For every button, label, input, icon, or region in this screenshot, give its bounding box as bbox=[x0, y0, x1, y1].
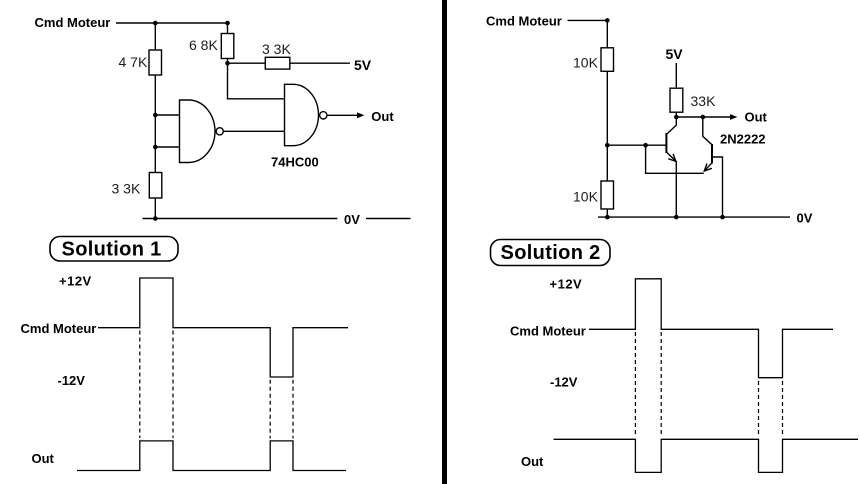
junction: top rail / R3 bbox=[225, 21, 230, 26]
transistor Q1 emitter arrow bbox=[668, 154, 676, 162]
wire: R1 to R2 vertical bbox=[154, 75, 156, 173]
wire: out rail bbox=[676, 116, 730, 118]
svg-text:-12V: -12V bbox=[550, 375, 578, 390]
svg-text:0V: 0V bbox=[344, 212, 360, 227]
svg-text:4 7K: 4 7K bbox=[119, 54, 148, 70]
wire: from Cmd Moteur to node bbox=[568, 19, 608, 21]
transistor Q1 emitter bbox=[666, 152, 676, 217]
svg-text:+12V: +12V bbox=[59, 274, 92, 289]
junction: R7 / Q1 collector / out bbox=[674, 115, 679, 120]
wire: 0V rail after label bbox=[366, 218, 411, 220]
wire: U1A input 2 bbox=[155, 146, 179, 148]
svg-text:Cmd Moteur: Cmd Moteur bbox=[510, 324, 586, 339]
junction: gate input B bbox=[153, 145, 158, 150]
wire: R5 down to base node bbox=[606, 71, 608, 145]
waveform Cmd Moteur (solution 1) bbox=[98, 278, 348, 377]
svg-text:Solution 2: Solution 2 bbox=[501, 242, 601, 264]
wire: 0V rail (left) bbox=[143, 218, 338, 220]
svg-text:3 3K: 3 3K bbox=[262, 41, 291, 57]
resistor R7 bbox=[670, 88, 683, 112]
dashed guide line 4 (right) bbox=[782, 381, 784, 436]
junction: R2 / 0V rail bbox=[153, 216, 158, 221]
wire: 5V down to R7 bbox=[675, 63, 677, 88]
junction: Q2 base lead / 0V bbox=[720, 215, 725, 220]
wire: U1A output to U1B input bbox=[223, 130, 284, 132]
junction: gate input A bbox=[153, 113, 158, 118]
wire: R3 to node bbox=[227, 59, 229, 64]
junction: input node bbox=[605, 18, 610, 23]
junction: R6 / 0V bbox=[605, 215, 610, 220]
svg-text:33K: 33K bbox=[691, 93, 717, 109]
solution 1 label box bbox=[50, 237, 178, 262]
wire: Q2 base lead to 0V bbox=[712, 157, 723, 217]
junction: top rail / R1 bbox=[153, 21, 158, 26]
wire: U1B output bbox=[327, 114, 358, 116]
dashed guide line 4 (left) bbox=[292, 380, 294, 439]
svg-text:Out: Out bbox=[745, 110, 768, 125]
svg-text:0V: 0V bbox=[797, 211, 813, 226]
resistor R6 bbox=[601, 181, 614, 209]
svg-text:2N2222: 2N2222 bbox=[720, 132, 766, 147]
wire: top rail from Cmd Moteur bbox=[116, 22, 228, 24]
dashed guide line 2 (left) bbox=[172, 331, 174, 439]
svg-text:74HC00: 74HC00 bbox=[271, 155, 319, 170]
svg-text:Solution 1: Solution 1 bbox=[62, 239, 162, 261]
svg-text:6 8K: 6 8K bbox=[189, 37, 218, 53]
junction: R3 / R4 / feedback node bbox=[225, 61, 230, 66]
transistor Q1 collector bbox=[666, 117, 676, 135]
wire: U1A input 1 bbox=[155, 114, 179, 116]
wire: node down to R5 bbox=[606, 20, 608, 47]
svg-text:3 3K: 3 3K bbox=[112, 181, 141, 197]
wire: 0V rail (right) bbox=[598, 216, 790, 218]
dashed guide line 3 (left) bbox=[269, 380, 271, 439]
wire: R2 to 0V bbox=[154, 198, 156, 219]
wire: feedback from base node down bbox=[646, 145, 704, 173]
transistor Q2 emitter arrow bbox=[704, 164, 712, 172]
junction: divider / base node bbox=[605, 143, 610, 148]
wire: base line to Q1 bbox=[607, 144, 666, 146]
waveform Out (solution 1) bbox=[77, 441, 346, 471]
wire: feedback node down and right to U1B input bbox=[228, 63, 285, 99]
svg-text:5V: 5V bbox=[666, 46, 684, 62]
resistor R4 bbox=[265, 57, 290, 69]
wire: R7 to out node bbox=[675, 112, 677, 117]
resistor R2 bbox=[149, 173, 162, 199]
svg-text:Out: Out bbox=[521, 454, 544, 469]
inverter bubble U1A bbox=[216, 128, 223, 135]
wire: R4 to 5V bbox=[290, 62, 350, 64]
solution 2 label box bbox=[491, 240, 611, 266]
svg-text:Out: Out bbox=[32, 451, 55, 466]
svg-text:10K: 10K bbox=[573, 55, 599, 71]
svg-text:Out: Out bbox=[371, 109, 394, 124]
transistor Q2 emitter bbox=[704, 163, 712, 171]
arrowhead out (right) bbox=[730, 114, 738, 120]
wire: node to R4 bbox=[228, 62, 266, 64]
dashed guide line 1 (right) bbox=[634, 332, 636, 436]
resistor R1 bbox=[149, 50, 162, 75]
resistor R3 bbox=[221, 34, 234, 59]
svg-text:10K: 10K bbox=[573, 189, 599, 205]
dashed guide line 1 (left) bbox=[139, 331, 141, 439]
divider bar bbox=[442, 0, 447, 484]
transistor Q2 base bar bbox=[711, 144, 713, 164]
dashed guide line 2 (right) bbox=[660, 332, 662, 436]
junction: base line / feedback bbox=[643, 143, 648, 148]
junction: Q1 emitter / 0V bbox=[674, 215, 679, 220]
junction: Q2 collector / out bbox=[701, 115, 706, 120]
svg-text:Cmd Moteur: Cmd Moteur bbox=[21, 321, 97, 336]
dashed guide line 3 (right) bbox=[758, 381, 760, 436]
wire: down to R1 bbox=[154, 23, 156, 50]
nand gate U1A bbox=[180, 100, 216, 163]
svg-text:+12V: +12V bbox=[550, 277, 583, 292]
nand gate U1B bbox=[285, 84, 319, 145]
svg-text:Cmd Moteur: Cmd Moteur bbox=[35, 15, 111, 30]
svg-text:5V: 5V bbox=[354, 57, 372, 73]
wire: node down to R6 bbox=[606, 145, 608, 181]
waveform Cmd Moteur (solution 2) bbox=[589, 279, 833, 378]
transistor Q2 collector bbox=[703, 117, 712, 145]
inverter bubble U1B bbox=[320, 112, 327, 119]
wire: R6 to 0V bbox=[606, 209, 608, 217]
wire: top rail down to R3 bbox=[227, 23, 229, 34]
resistor R5 bbox=[601, 48, 614, 72]
svg-text:Cmd Moteur: Cmd Moteur bbox=[486, 14, 562, 29]
transistor Q1 base bar bbox=[665, 133, 667, 153]
svg-text:-12V: -12V bbox=[58, 373, 86, 388]
waveform Out (solution 2) bbox=[554, 439, 859, 472]
arrowhead out (left) bbox=[357, 112, 365, 118]
